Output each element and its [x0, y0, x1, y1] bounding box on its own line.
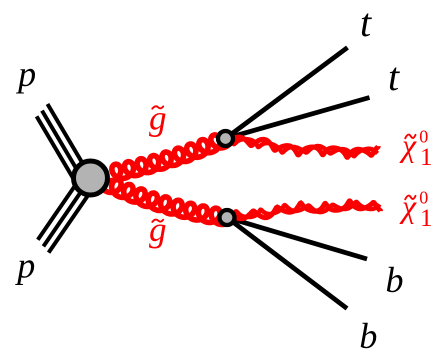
- lower gluino decay vertex: [220, 210, 235, 225]
- neutralino line: upper wavy: [232, 137, 379, 157]
- interaction blob: pp collision vertex: [74, 161, 108, 195]
- wire: bottom quark line 2 (lower vertex to b): [227, 218, 347, 309]
- svg-text:χ: χ: [399, 188, 417, 224]
- svg-text:1: 1: [420, 205, 433, 232]
- svg-text:b: b: [359, 316, 377, 356]
- label neutralino chi_1^0 (lower): [399, 188, 433, 232]
- wire: incoming proton triple line (bottom left): [38, 170, 97, 253]
- neutralino line: lower wavy: [234, 201, 381, 219]
- svg-text:p: p: [15, 54, 36, 94]
- svg-text:χ: χ: [399, 127, 417, 163]
- gluino propagator: lower curly (gluon spring) line: [101, 175, 227, 225]
- wire: incoming proton triple line (top left): [37, 104, 93, 192]
- upper gluino decay vertex: [218, 131, 233, 146]
- svg-text:b: b: [386, 260, 404, 300]
- svg-text:g: g: [149, 99, 167, 138]
- svg-text:t: t: [360, 0, 372, 45]
- svg-text:1: 1: [420, 144, 433, 171]
- label neutralino chi_1^0 (upper): [399, 127, 433, 171]
- svg-text:t: t: [388, 54, 400, 99]
- svg-text:p: p: [14, 246, 35, 286]
- gluino propagator: upper curly (gluon spring) line: [103, 135, 229, 181]
- wire: top quark line 1 (upper vertex to t): [226, 48, 348, 139]
- wire: bottom quark line 1 (lower vertex to b): [227, 218, 367, 260]
- svg-text:g: g: [149, 210, 167, 249]
- wire: top quark line 2 (upper vertex to t): [226, 98, 370, 139]
